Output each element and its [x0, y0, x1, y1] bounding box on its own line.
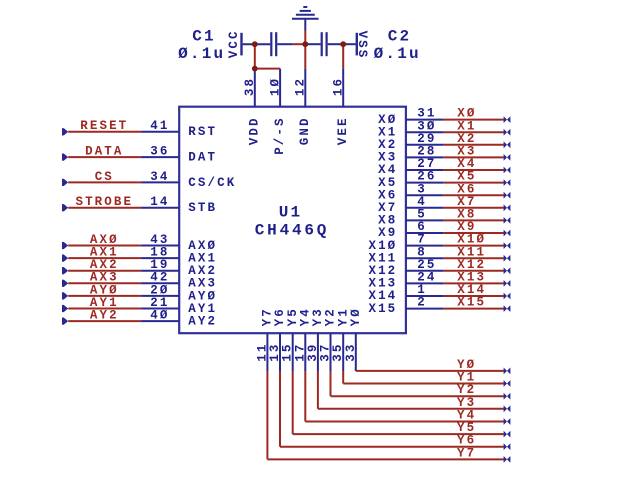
svg-text:C2: C2 — [388, 27, 412, 45]
svg-text:Ø.1u: Ø.1u — [374, 45, 421, 63]
svg-text:2: 2 — [417, 296, 427, 310]
svg-text:12: 12 — [294, 77, 308, 96]
svg-text:33: 33 — [344, 342, 358, 361]
svg-text:34: 34 — [150, 170, 169, 184]
svg-text:STROBE: STROBE — [75, 195, 133, 209]
svg-text:16: 16 — [332, 77, 346, 96]
svg-text:36: 36 — [150, 145, 169, 159]
svg-text:Ø.1u: Ø.1u — [178, 45, 225, 63]
svg-text:C1: C1 — [192, 27, 216, 45]
svg-text:RST: RST — [188, 125, 217, 139]
svg-text:38: 38 — [243, 77, 257, 96]
svg-text:Y7: Y7 — [457, 446, 476, 460]
svg-text:4Ø: 4Ø — [150, 309, 169, 323]
svg-text:U1: U1 — [279, 204, 303, 222]
svg-text:RESET: RESET — [80, 119, 128, 133]
svg-text:VCC: VCC — [227, 29, 241, 58]
svg-text:CH446Q: CH446Q — [255, 222, 329, 240]
svg-text:AY2: AY2 — [188, 315, 217, 329]
svg-text:41: 41 — [150, 119, 169, 133]
svg-text:P/-S: P/-S — [273, 116, 287, 154]
svg-text:X15: X15 — [368, 302, 397, 316]
svg-text:CS/CK: CS/CK — [188, 176, 236, 190]
svg-text:CS: CS — [95, 170, 114, 184]
svg-text:VSS: VSS — [355, 31, 369, 60]
svg-text:14: 14 — [150, 195, 169, 209]
svg-text:AY2: AY2 — [90, 309, 119, 323]
svg-text:VEE: VEE — [336, 116, 350, 145]
svg-text:X15: X15 — [457, 296, 486, 310]
svg-text:VDD: VDD — [248, 116, 262, 145]
svg-text:GND: GND — [298, 116, 312, 145]
svg-text:YØ: YØ — [349, 307, 363, 326]
svg-text:1Ø: 1Ø — [269, 77, 283, 96]
svg-text:DATA: DATA — [85, 145, 123, 159]
svg-text:STB: STB — [188, 201, 217, 215]
svg-text:DAT: DAT — [188, 151, 217, 165]
